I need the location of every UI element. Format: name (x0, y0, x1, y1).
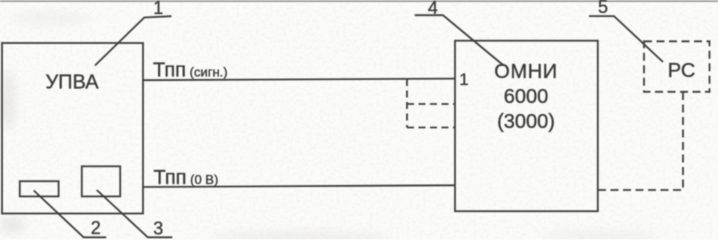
svg-text:3: 3 (153, 219, 163, 239)
dashed link ОМНИ to РС vertical (682, 92, 684, 190)
svg-text:1: 1 (459, 70, 468, 89)
connector block 3 (small rect) (82, 166, 120, 196)
block ОМНИ 6000 (3000) (455, 41, 598, 212)
block РС (dashed) (644, 41, 710, 92)
svg-text:ОМНИ: ОМНИ (494, 61, 557, 83)
svg-text:6000: 6000 (504, 86, 549, 108)
dashed stub vertical at wire (406, 79, 408, 128)
wire Тпп (0 В) (143, 185, 455, 187)
dashed stub horizontal upper (407, 103, 455, 105)
dashed stub horizontal lower (407, 127, 455, 129)
svg-text:УПВА: УПВА (45, 72, 99, 94)
svg-text:4: 4 (428, 0, 438, 18)
svg-text:(3000): (3000) (497, 111, 555, 133)
svg-text:5: 5 (598, 0, 608, 17)
top scan edge line (0, 0, 718, 2)
block УПВА (2, 43, 143, 214)
leader line 3 (97, 190, 173, 237)
svg-text:РС: РС (668, 60, 696, 82)
dashed link ОМНИ to РС horizontal (598, 189, 683, 191)
connector block 2 (small rect) (20, 181, 59, 196)
leader line 5 (589, 16, 663, 62)
svg-text:1: 1 (153, 0, 163, 18)
svg-text:2: 2 (91, 218, 101, 238)
leader line 4 (415, 15, 503, 65)
wire Тпп (сигн.) (143, 79, 455, 81)
leader line 1 (95, 16, 172, 65)
leader line 2 (34, 191, 106, 238)
